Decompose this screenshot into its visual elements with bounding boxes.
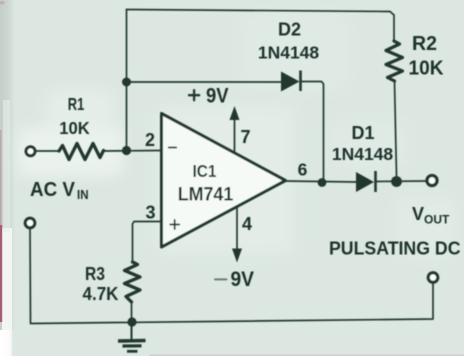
svg-text:10K: 10K xyxy=(409,58,445,80)
svg-text:R1: R1 xyxy=(68,94,85,114)
svg-text:LM741: LM741 xyxy=(178,184,234,206)
svg-text:1N4148: 1N4148 xyxy=(258,43,320,63)
svg-text:R2: R2 xyxy=(412,33,437,55)
svg-text:7: 7 xyxy=(240,127,250,147)
svg-text:3: 3 xyxy=(145,203,155,223)
svg-text:PULSATING DC: PULSATING DC xyxy=(329,239,461,259)
svg-text:4: 4 xyxy=(242,214,252,234)
svg-text:D2: D2 xyxy=(278,20,301,40)
svg-text:4.7K: 4.7K xyxy=(83,284,119,304)
svg-text:6: 6 xyxy=(298,160,308,180)
svg-text:1N4148: 1N4148 xyxy=(332,144,394,164)
svg-text:10K: 10K xyxy=(59,118,90,138)
svg-text:IN: IN xyxy=(77,188,89,202)
svg-text:R3: R3 xyxy=(85,263,105,284)
svg-text:D1: D1 xyxy=(351,123,374,143)
svg-text:2: 2 xyxy=(145,130,155,150)
svg-text:AC V: AC V xyxy=(30,179,76,201)
svg-text:9V: 9V xyxy=(206,85,229,108)
svg-text:IC1: IC1 xyxy=(193,161,217,181)
svg-text:9V: 9V xyxy=(231,267,255,291)
